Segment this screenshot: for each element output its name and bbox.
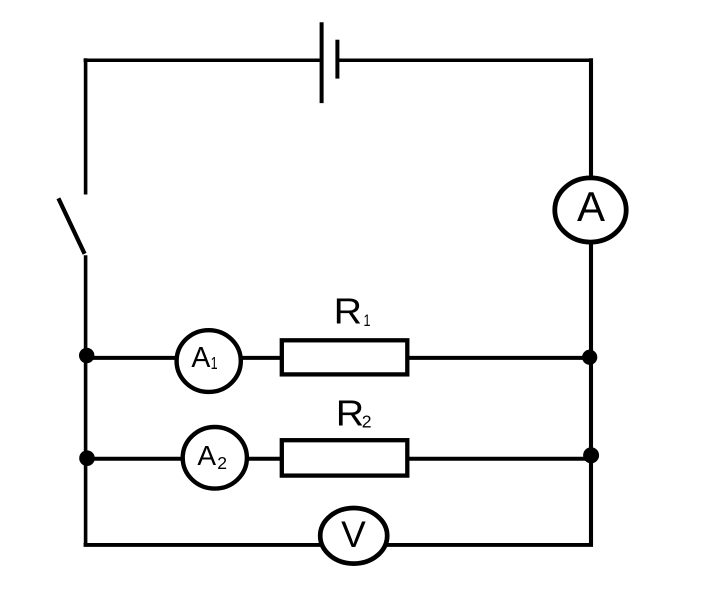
wire top-right horizontal (337, 58, 593, 62)
wire left vertical upper (84, 58, 88, 194)
voltmeter V (320, 508, 387, 564)
wire right vertical (589, 58, 593, 546)
battery B1 long plate (320, 22, 324, 103)
switch S1 blade (58, 198, 84, 254)
wire branch 1 (85, 356, 591, 360)
wire left vertical lower (84, 255, 88, 546)
battery B1 short plate (335, 40, 339, 79)
svg-text:2: 2 (362, 412, 372, 432)
ammeter A2 (183, 427, 247, 489)
svg-text:2: 2 (217, 453, 227, 473)
svg-text:A: A (197, 440, 216, 471)
wire bottom horizontal (84, 543, 593, 547)
resistor R2 (282, 440, 408, 475)
svg-text:R: R (334, 291, 362, 332)
svg-text:V: V (341, 514, 366, 555)
node junction dot left 1 (79, 348, 94, 363)
node junction dot left 2 (79, 450, 95, 466)
node junction dot right 1 (582, 350, 597, 365)
svg-text:A: A (191, 342, 210, 374)
label R1 (334, 291, 371, 332)
wire top-left horizontal (84, 58, 320, 62)
wire branch 2 (85, 457, 591, 461)
label R2 (336, 393, 372, 434)
resistor R1 (282, 340, 408, 374)
svg-text:A: A (577, 183, 605, 230)
node junction dot right 2 (583, 447, 599, 463)
svg-text:1: 1 (211, 353, 218, 373)
ammeter A1 (177, 330, 241, 392)
svg-text:R: R (336, 393, 364, 434)
ammeter A (555, 178, 626, 242)
svg-text:1: 1 (364, 311, 371, 330)
